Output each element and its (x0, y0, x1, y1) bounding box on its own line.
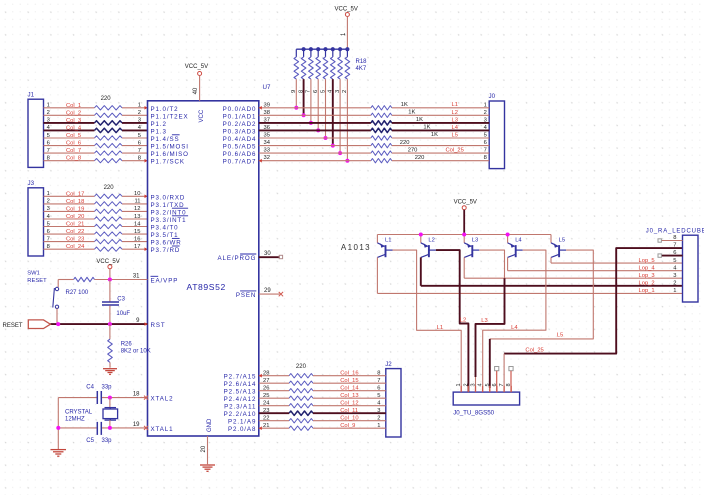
svg-text:2: 2 (342, 90, 348, 93)
svg-text:3: 3 (471, 383, 477, 386)
svg-text:10: 10 (134, 191, 140, 197)
svg-text:1: 1 (377, 423, 380, 429)
svg-text:L2: L2 (428, 238, 434, 244)
svg-text:13: 13 (134, 214, 140, 220)
svg-text:P2.0/A8: P2.0/A8 (228, 426, 256, 433)
svg-text:6: 6 (138, 140, 141, 146)
svg-text:Col_17: Col_17 (66, 191, 84, 197)
svg-text:7: 7 (47, 148, 50, 154)
svg-text:7: 7 (306, 90, 312, 93)
svg-text:2: 2 (484, 110, 487, 116)
svg-text:VCC_5V: VCC_5V (335, 6, 358, 12)
svg-text:220: 220 (400, 140, 410, 146)
svg-text:Col_16: Col_16 (340, 371, 358, 377)
svg-text:1K: 1K (416, 117, 423, 123)
svg-text:P2.7/A15: P2.7/A15 (224, 374, 257, 381)
svg-text:2: 2 (377, 415, 380, 421)
svg-text:33: 33 (264, 148, 270, 154)
svg-text:L4: L4 (511, 325, 518, 331)
svg-text:P3.0/RXD: P3.0/RXD (151, 194, 186, 201)
svg-text:4: 4 (478, 383, 484, 386)
svg-text:1K: 1K (408, 110, 415, 116)
svg-text:1: 1 (47, 103, 50, 109)
svg-text:P3.2/INT0: P3.2/INT0 (151, 209, 187, 216)
svg-text:R26: R26 (121, 341, 133, 347)
svg-text:35: 35 (264, 133, 270, 139)
svg-text:2: 2 (138, 110, 141, 116)
svg-text:VCC_5V: VCC_5V (96, 259, 119, 265)
svg-text:6: 6 (484, 140, 487, 146)
svg-text:6: 6 (47, 140, 50, 146)
svg-text:8: 8 (377, 370, 380, 376)
svg-text:220: 220 (101, 96, 112, 102)
svg-text:P3.7/RD: P3.7/RD (151, 247, 181, 254)
svg-text:R18: R18 (356, 59, 368, 65)
svg-text:U7: U7 (263, 84, 271, 91)
svg-text:1K: 1K (401, 102, 408, 108)
svg-text:1: 1 (47, 191, 50, 197)
svg-text:14: 14 (134, 221, 141, 227)
svg-text:26: 26 (263, 385, 269, 391)
svg-text:P0.1/AD1: P0.1/AD1 (223, 113, 257, 120)
svg-text:1: 1 (456, 383, 462, 386)
svg-text:40: 40 (193, 87, 199, 94)
svg-text:PSEN: PSEN (236, 292, 256, 299)
svg-text:Col_14: Col_14 (340, 386, 359, 392)
svg-text:29: 29 (264, 288, 271, 294)
svg-text:P0.5/AD5: P0.5/AD5 (223, 144, 257, 151)
svg-text:9: 9 (291, 90, 297, 93)
svg-text:4K7: 4K7 (356, 66, 367, 72)
svg-text:P2.6/A14: P2.6/A14 (224, 381, 257, 388)
svg-text:Col_9: Col_9 (340, 423, 355, 429)
svg-text:L3: L3 (452, 117, 458, 123)
svg-text:3: 3 (484, 118, 487, 124)
svg-text:8: 8 (484, 155, 487, 161)
svg-text:Col_4: Col_4 (66, 125, 82, 131)
svg-text:Col_24: Col_24 (66, 244, 85, 250)
svg-text:Lop_5: Lop_5 (639, 258, 655, 264)
svg-text:5: 5 (138, 133, 141, 139)
svg-text:P2.2/A10: P2.2/A10 (224, 411, 257, 418)
svg-text:Col_3: Col_3 (66, 118, 81, 124)
svg-text:1: 1 (673, 288, 676, 294)
svg-text:28: 28 (263, 370, 269, 376)
svg-text:L5: L5 (557, 333, 563, 339)
svg-text:C3: C3 (117, 296, 125, 302)
svg-text:Col_19: Col_19 (66, 206, 84, 212)
svg-text:5: 5 (484, 133, 487, 139)
svg-text:5: 5 (485, 383, 491, 386)
svg-text:P1.7/SCK: P1.7/SCK (151, 159, 185, 166)
svg-text:7: 7 (499, 383, 505, 386)
svg-text:5: 5 (320, 90, 326, 93)
svg-text:P1.2: P1.2 (151, 121, 167, 128)
svg-text:C4: C4 (86, 384, 94, 390)
svg-text:6: 6 (47, 229, 50, 235)
svg-text:P0.7/AD7: P0.7/AD7 (223, 159, 257, 166)
svg-text:17: 17 (134, 244, 140, 250)
svg-text:Lop_2: Lop_2 (639, 281, 655, 287)
svg-text:P3.3/INT1: P3.3/INT1 (151, 217, 187, 224)
svg-text:5: 5 (47, 221, 50, 227)
svg-text:23: 23 (263, 408, 269, 414)
svg-text:L4: L4 (515, 238, 522, 244)
svg-text:XTAL1: XTAL1 (151, 426, 174, 433)
svg-text:P2.4/A12: P2.4/A12 (224, 396, 257, 403)
svg-text:3: 3 (377, 408, 380, 414)
svg-text:2: 2 (463, 383, 469, 386)
svg-text:Col_15: Col_15 (340, 378, 358, 384)
svg-text:30: 30 (264, 251, 271, 257)
svg-text:Col_23: Col_23 (66, 237, 84, 243)
svg-text:Col_21: Col_21 (66, 222, 84, 228)
svg-text:5: 5 (47, 133, 50, 139)
svg-text:RESET: RESET (27, 278, 47, 284)
svg-text:24: 24 (263, 400, 270, 406)
svg-text:GND: GND (207, 418, 213, 432)
svg-text:36: 36 (264, 125, 270, 131)
svg-text:A1013: A1013 (341, 243, 371, 252)
svg-text:8: 8 (298, 90, 304, 93)
svg-text:Col_6: Col_6 (66, 141, 81, 147)
svg-text:Lop_3: Lop_3 (639, 273, 655, 279)
svg-text:P1.0/T2: P1.0/T2 (151, 106, 179, 113)
svg-text:P1.1/T2EX: P1.1/T2EX (151, 113, 189, 120)
svg-text:Col_1: Col_1 (66, 103, 81, 109)
svg-text:P1.6/MISO: P1.6/MISO (151, 151, 189, 158)
svg-text:12: 12 (134, 206, 140, 212)
svg-text:SW1: SW1 (27, 271, 40, 277)
svg-text:L1: L1 (385, 238, 391, 244)
svg-text:3: 3 (335, 90, 341, 93)
svg-text:Col_13: Col_13 (340, 393, 358, 399)
svg-text:J0_RA_LEDCUBE: J0_RA_LEDCUBE (646, 229, 704, 235)
svg-text:Col_25: Col_25 (525, 347, 543, 353)
svg-text:P0.0/AD0: P0.0/AD0 (223, 106, 257, 113)
svg-text:220: 220 (296, 364, 307, 370)
svg-text:P1.5/MOSI: P1.5/MOSI (151, 144, 189, 151)
svg-text:J2: J2 (385, 361, 392, 368)
svg-text:5: 5 (673, 258, 676, 264)
svg-text:39: 39 (264, 102, 270, 108)
svg-text:EA/VPP: EA/VPP (151, 278, 179, 285)
svg-text:L3: L3 (472, 238, 478, 244)
svg-text:220: 220 (104, 185, 115, 191)
svg-text:Col_8: Col_8 (66, 156, 81, 162)
svg-text:J0: J0 (489, 93, 496, 100)
svg-text:10uF: 10uF (116, 311, 130, 317)
svg-text:16: 16 (134, 236, 140, 242)
svg-text:P0.3/AD3: P0.3/AD3 (223, 128, 257, 135)
svg-text:P1.4/SS: P1.4/SS (151, 136, 180, 143)
svg-text:P0.4/AD4: P0.4/AD4 (223, 136, 257, 143)
svg-text:L3: L3 (481, 318, 487, 324)
svg-text:L2: L2 (452, 110, 458, 116)
svg-text:38: 38 (264, 110, 270, 116)
svg-text:Col_2: Col_2 (66, 110, 81, 116)
svg-text:270: 270 (408, 147, 418, 153)
svg-text:L5: L5 (559, 238, 565, 244)
svg-text:P0.2/AD2: P0.2/AD2 (223, 121, 257, 128)
svg-text:1K: 1K (423, 125, 430, 131)
svg-text:33p: 33p (102, 384, 113, 390)
svg-text:18: 18 (133, 392, 140, 398)
svg-text:Col_22: Col_22 (66, 229, 84, 235)
svg-text:P0.6/AD6: P0.6/AD6 (223, 151, 257, 158)
svg-text:15: 15 (134, 229, 140, 235)
svg-text:6: 6 (377, 385, 380, 391)
svg-text:Col_25: Col_25 (446, 148, 464, 154)
svg-text:8K2 or 10K: 8K2 or 10K (121, 348, 151, 354)
svg-text:2: 2 (47, 199, 50, 205)
svg-text:220: 220 (415, 155, 425, 161)
svg-text:J3: J3 (28, 180, 35, 187)
svg-text:L1: L1 (437, 325, 443, 331)
svg-text:27: 27 (263, 378, 269, 384)
svg-text:12MHZ: 12MHZ (65, 416, 85, 422)
svg-text:Col_20: Col_20 (66, 214, 84, 220)
svg-text:Col_5: Col_5 (66, 133, 81, 139)
svg-text:19: 19 (133, 422, 140, 428)
svg-text:C5: C5 (86, 438, 94, 444)
svg-text:L4: L4 (452, 125, 459, 131)
svg-text:3: 3 (673, 273, 676, 279)
svg-text:25: 25 (263, 393, 269, 399)
svg-text:RST: RST (151, 322, 166, 329)
svg-text:P2.1/A9: P2.1/A9 (228, 419, 256, 426)
svg-text:20: 20 (201, 445, 207, 452)
svg-text:11: 11 (134, 199, 140, 205)
svg-text:Lop_4: Lop_4 (639, 265, 656, 271)
svg-text:1K: 1K (431, 132, 438, 138)
svg-text:Col_7: Col_7 (66, 148, 81, 154)
svg-text:J0_TU_8GS50: J0_TU_8GS50 (453, 410, 494, 417)
svg-text:3: 3 (47, 118, 50, 124)
svg-text:L5: L5 (452, 132, 458, 138)
svg-text:22: 22 (263, 415, 269, 421)
svg-text:1: 1 (138, 103, 141, 109)
svg-text:L2: L2 (460, 318, 466, 324)
svg-text:Col_11: Col_11 (340, 408, 358, 414)
svg-text:Col_10: Col_10 (340, 416, 358, 422)
svg-text:Col_18: Col_18 (66, 199, 84, 205)
svg-text:8: 8 (138, 156, 141, 162)
svg-text:3: 3 (138, 118, 141, 124)
svg-text:7: 7 (484, 148, 487, 154)
svg-text:21: 21 (263, 423, 269, 429)
svg-text:P2.3/A11: P2.3/A11 (224, 404, 256, 411)
svg-text:7: 7 (47, 236, 50, 242)
svg-text:Lop_1: Lop_1 (639, 288, 655, 294)
svg-text:Col_12: Col_12 (340, 401, 358, 407)
svg-text:2: 2 (47, 110, 50, 116)
svg-text:33p: 33p (102, 438, 113, 444)
svg-text:6: 6 (313, 90, 319, 93)
svg-text:J1: J1 (28, 92, 35, 99)
svg-text:VCC_5V: VCC_5V (185, 64, 208, 70)
svg-text:L1: L1 (452, 102, 458, 108)
svg-text:1: 1 (484, 102, 487, 108)
svg-text:XTAL2: XTAL2 (151, 396, 174, 403)
svg-text:R27 100: R27 100 (66, 290, 89, 296)
svg-text:7: 7 (377, 378, 380, 384)
svg-text:37: 37 (264, 118, 270, 124)
svg-text:7: 7 (673, 243, 676, 249)
svg-text:VCC: VCC (199, 109, 205, 122)
svg-text:ALE/PROG: ALE/PROG (217, 255, 256, 262)
svg-text:VCC_5V: VCC_5V (454, 200, 477, 206)
svg-text:AT89S52: AT89S52 (187, 282, 226, 292)
svg-text:3: 3 (47, 206, 50, 212)
svg-text:RESET: RESET (3, 323, 23, 329)
svg-text:2: 2 (673, 280, 676, 286)
svg-text:7: 7 (138, 148, 141, 154)
svg-text:P1.3: P1.3 (151, 128, 167, 135)
svg-text:P2.5/A13: P2.5/A13 (224, 389, 257, 396)
svg-text:P3.4/T0: P3.4/T0 (151, 225, 179, 232)
svg-text:31: 31 (133, 273, 140, 279)
svg-text:8: 8 (47, 244, 50, 250)
svg-text:8: 8 (47, 156, 50, 162)
svg-text:32: 32 (264, 155, 270, 161)
svg-text:CRYSTAL: CRYSTAL (65, 410, 93, 416)
svg-text:5: 5 (377, 393, 380, 399)
svg-text:34: 34 (264, 140, 271, 146)
